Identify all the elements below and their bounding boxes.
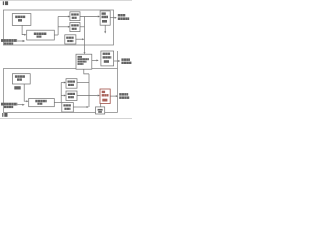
wire bus1' to BB' <box>61 95 64 97</box>
wire bus1 to BA <box>58 16 68 18</box>
external input arrow T <box>17 40 22 42</box>
external input text B <box>1 103 17 108</box>
wire BB' to medium box B <box>77 95 98 97</box>
box R (comparator output stage) <box>101 51 114 66</box>
faint page bottom edge <box>0 117 132 119</box>
box BB' (lower small module bottom section) <box>66 91 77 101</box>
box B1 (top-left module) <box>12 14 31 26</box>
box B1' (bottom-left module) <box>12 74 30 84</box>
box BC (clock module T) <box>65 35 76 44</box>
middle box M (shared module) <box>76 54 92 69</box>
bus2 vertical down to middle box <box>84 17 86 53</box>
wire M to box R <box>92 59 97 61</box>
dangling down arrow from medium box T <box>104 25 106 31</box>
wire bus1 to BB <box>58 26 68 28</box>
output text R <box>121 58 131 64</box>
arrowhead into B2 <box>24 34 26 36</box>
page background <box>0 0 132 120</box>
bus3 vertical <box>88 74 90 107</box>
output wire B <box>110 95 116 97</box>
wire BB to bus2 <box>80 26 85 28</box>
output wire R <box>114 60 119 62</box>
box B2 (reference module) <box>27 30 55 40</box>
faint page top edge <box>0 0 132 2</box>
wire bus1' to BA' <box>61 82 64 84</box>
medium box B (highlighted output stage, red) <box>100 89 110 104</box>
medium box T (output stage) <box>100 11 110 25</box>
box BC' (clock module bottom) <box>62 103 74 113</box>
output text T <box>118 14 129 20</box>
external input arrow B <box>17 104 22 106</box>
wire BA to medium box T <box>80 16 98 18</box>
wire M bottom to bus3 <box>84 69 89 74</box>
box BA' (upper small module bottom section) <box>66 79 77 89</box>
outer box T (top section enclosure) <box>3 10 113 45</box>
box BB (lower small module) <box>70 23 80 32</box>
bus1 vertical <box>57 17 59 36</box>
right edge extension above outer box B <box>116 51 118 69</box>
outer box B (bottom section enclosure) <box>3 69 117 113</box>
box B2 text <box>34 33 47 38</box>
output wire T <box>110 17 115 19</box>
numeral under B1' <box>14 86 20 89</box>
output text B <box>119 93 129 99</box>
box B1 text <box>15 16 25 22</box>
figure label bottom-left <box>2 113 7 117</box>
wire B2 to bus1 <box>54 34 58 36</box>
figure label top-left <box>3 1 8 5</box>
wire B1 to B2 <box>22 26 24 35</box>
small box P (bottom attachment) <box>96 107 105 114</box>
wire B1' to B2' <box>24 84 26 101</box>
box BA (upper small module) <box>70 12 80 21</box>
wire BC to bus2 <box>76 38 82 40</box>
box B2' (bottom reference module) <box>29 99 55 107</box>
wire red box to box P <box>100 104 102 107</box>
box P text <box>98 109 103 111</box>
wire BA' to bus3 <box>77 82 89 84</box>
bus1' vertical <box>60 83 62 103</box>
external input text T <box>1 39 17 45</box>
wire B2' to bus1' <box>54 102 61 104</box>
wire BC' to bus3 <box>73 106 86 108</box>
